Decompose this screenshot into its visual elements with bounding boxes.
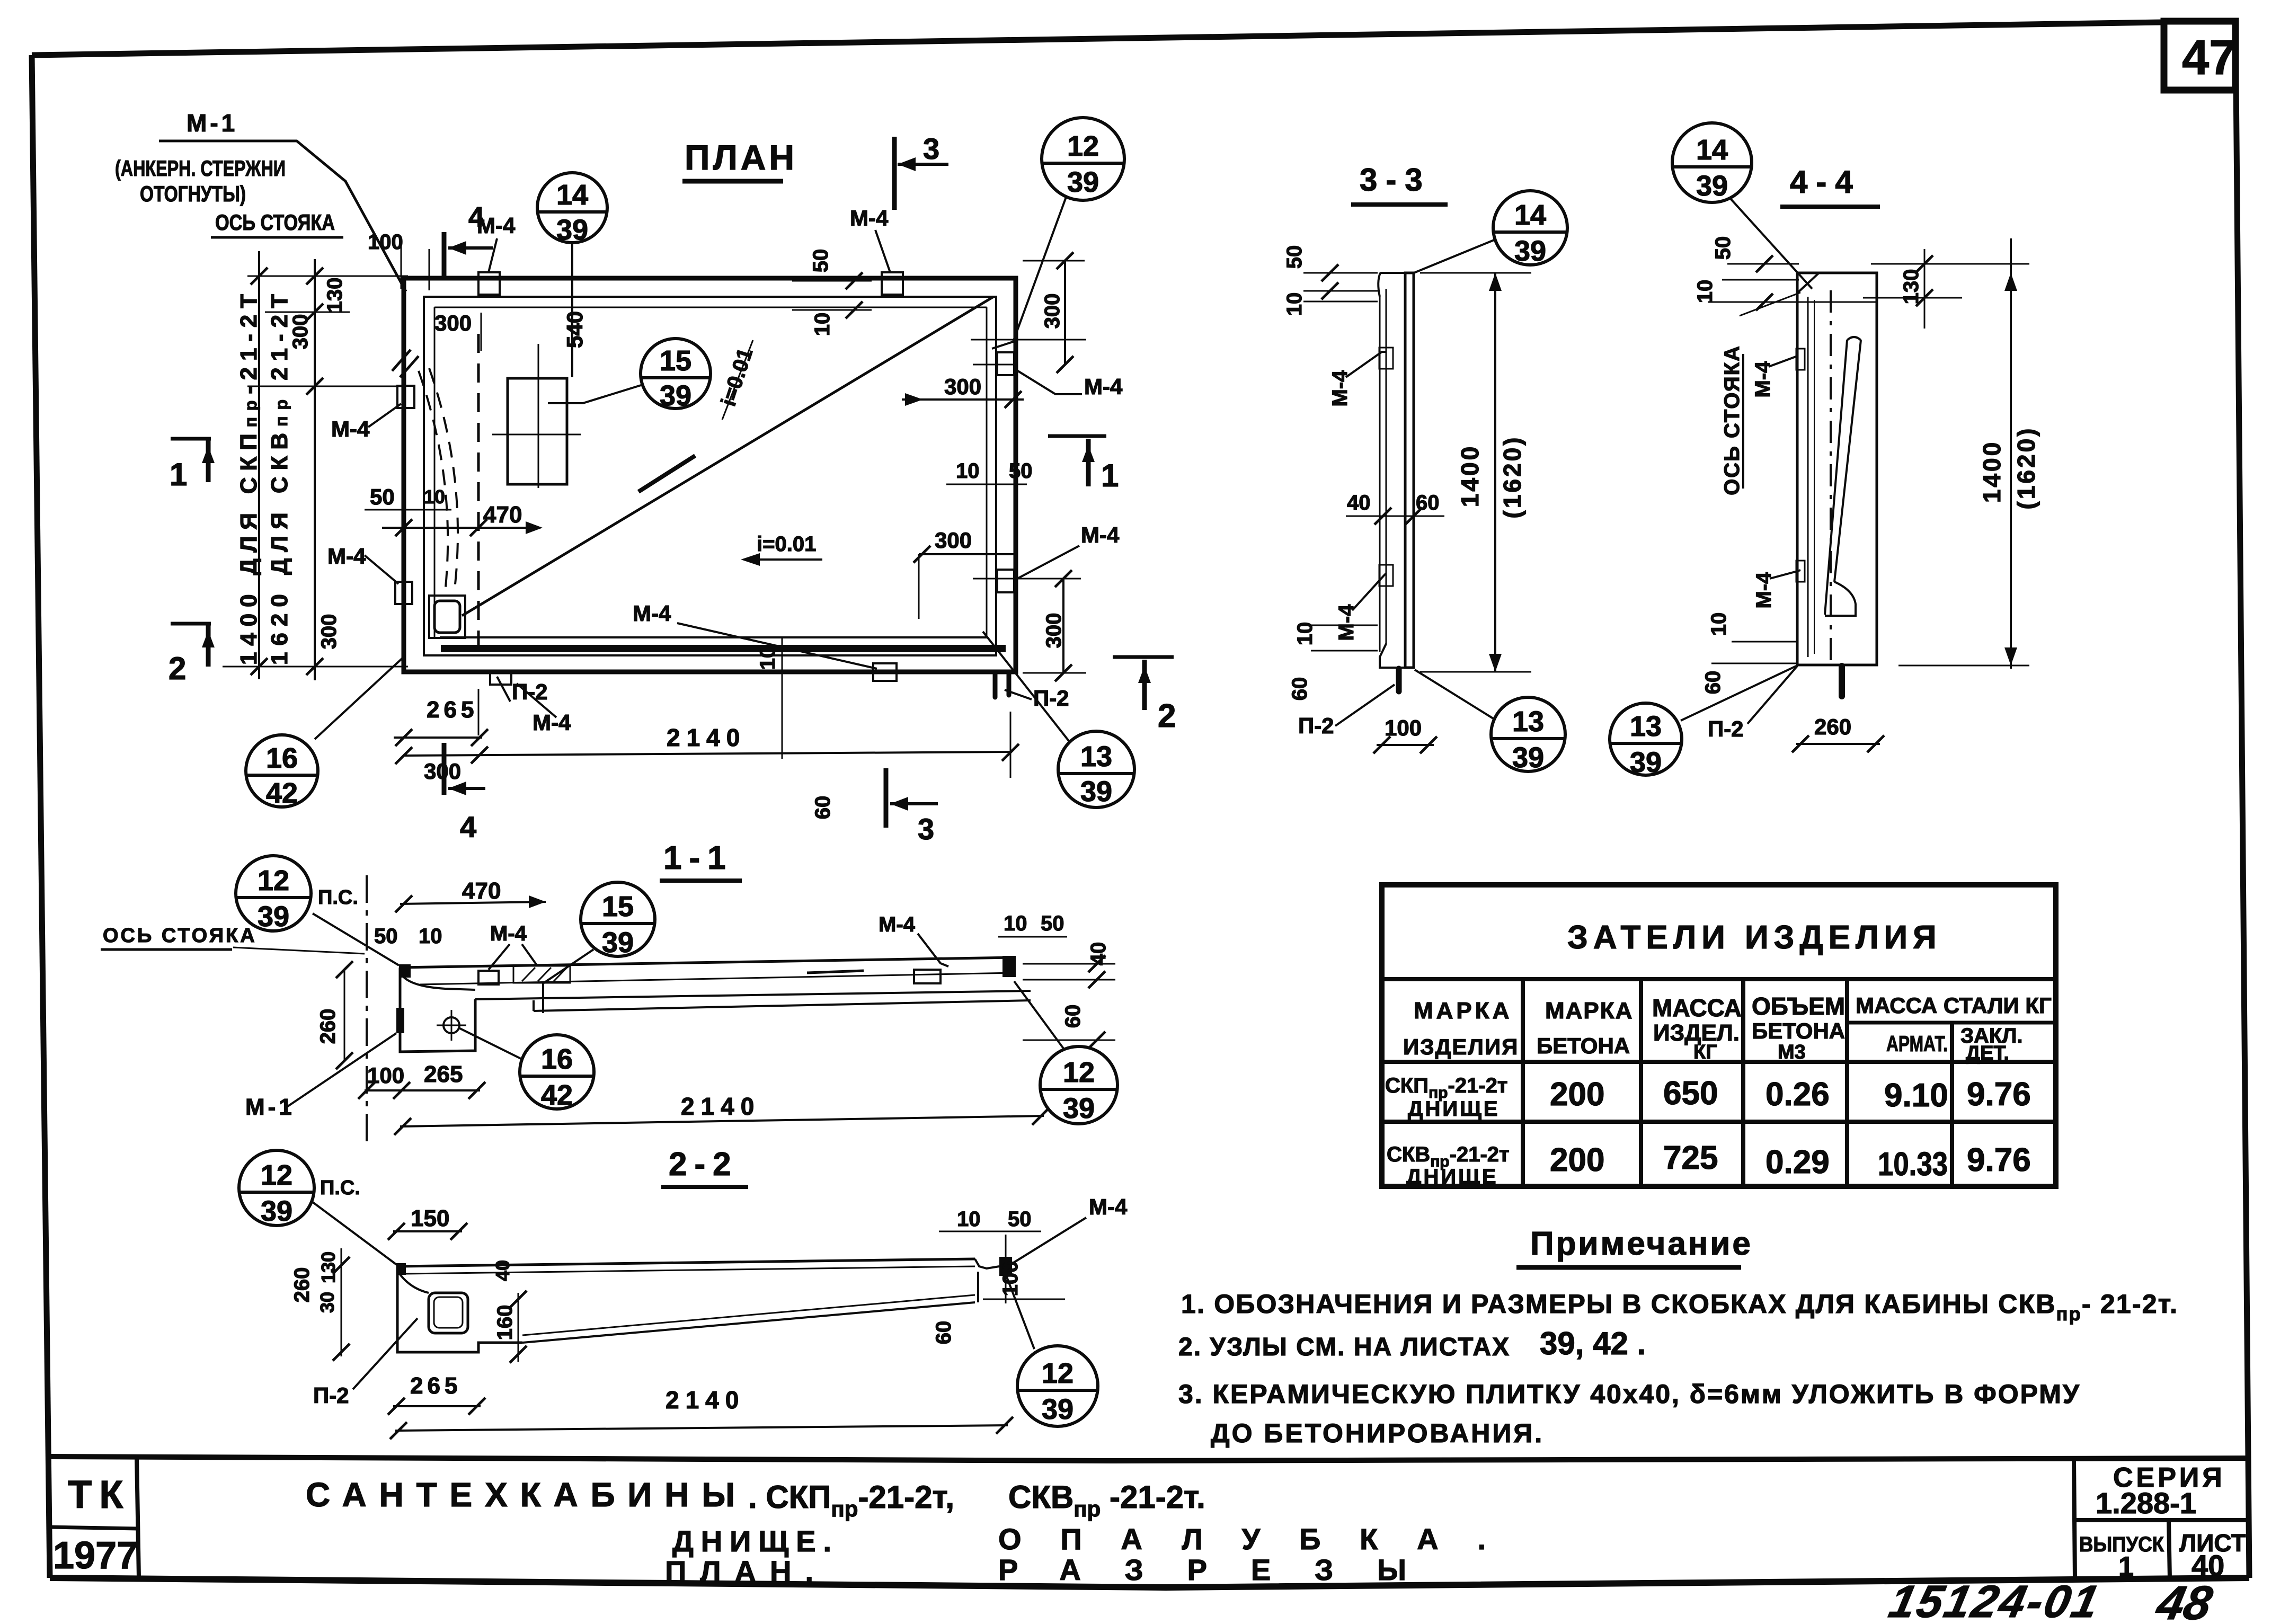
svg-text:13: 13 — [1080, 741, 1112, 773]
svg-text:2. УЗЛЫ СМ. НА ЛИСТАХ: 2. УЗЛЫ СМ. НА ЛИСТАХ — [1178, 1333, 1510, 1361]
svg-text:260: 260 — [1814, 714, 1851, 739]
svg-text:М-4: М-4 — [477, 213, 516, 238]
svg-text:М-4: М-4 — [1335, 604, 1358, 641]
svg-text:ОБЪЕМ: ОБЪЕМ — [1752, 992, 1845, 1020]
svg-text:50: 50 — [1008, 1208, 1032, 1231]
svg-text:1: 1 — [2118, 1551, 2134, 1582]
svg-text:ОТОГНУТЫ): ОТОГНУТЫ) — [140, 181, 246, 206]
svg-text:. СКПпр-21-2т,: . СКПпр-21-2т, — [748, 1479, 954, 1521]
svg-text:М-4: М-4 — [1081, 522, 1120, 547]
svg-text:650: 650 — [1663, 1075, 1718, 1112]
svg-text:10: 10 — [1283, 292, 1306, 316]
svg-text:ИЗДЕЛИЯ: ИЗДЕЛИЯ — [1403, 1034, 1519, 1059]
svg-text:300: 300 — [1042, 613, 1066, 649]
svg-text:60: 60 — [1701, 671, 1725, 695]
svg-text:100: 100 — [999, 1261, 1022, 1297]
svg-text:12: 12 — [1042, 1357, 1073, 1389]
svg-text:4-4: 4-4 — [1790, 164, 1861, 200]
svg-text:3: 3 — [918, 812, 934, 846]
svg-text:3. КЕРАМИЧЕСКУЮ ПЛИТКУ 40х4: 3. КЕРАМИЧЕСКУЮ ПЛИТКУ 40х40, δ=6мм УЛОЖ… — [1178, 1379, 2080, 1409]
svg-text:12: 12 — [1067, 130, 1099, 162]
svg-text:39: 39 — [1630, 747, 1662, 778]
svg-text:60: 60 — [1288, 677, 1311, 701]
svg-text:300: 300 — [434, 310, 472, 335]
svg-text:1: 1 — [1101, 458, 1119, 493]
svg-text:39: 39 — [1696, 170, 1728, 202]
svg-text:М-4: М-4 — [879, 913, 916, 936]
svg-text:М-4: М-4 — [490, 922, 527, 945]
svg-text:39: 39 — [602, 927, 634, 959]
svg-text:(1620): (1620) — [1498, 436, 1526, 519]
svg-text:40: 40 — [492, 1260, 513, 1281]
svg-text:2140: 2140 — [681, 1093, 760, 1120]
svg-text:П.С.: П.С. — [320, 1177, 360, 1199]
svg-text:300: 300 — [424, 759, 461, 784]
svg-text:160: 160 — [493, 1305, 517, 1341]
svg-text:130: 130 — [323, 278, 347, 313]
svg-text:540: 540 — [562, 311, 587, 348]
svg-text:1-1: 1-1 — [663, 840, 733, 876]
svg-text:2: 2 — [1158, 698, 1176, 734]
svg-text:200: 200 — [1550, 1076, 1604, 1113]
svg-text:39: 39 — [1512, 742, 1544, 774]
svg-text:П-2: П-2 — [1033, 686, 1069, 711]
svg-text:15124-01: 15124-01 — [1885, 1576, 2105, 1624]
svg-text:39: 39 — [1042, 1394, 1073, 1425]
svg-text:СКВпр -21-2т.: СКВпр -21-2т. — [1008, 1479, 1205, 1521]
svg-text:12: 12 — [261, 1159, 292, 1191]
svg-text:1977: 1977 — [53, 1534, 138, 1577]
svg-text:10: 10 — [1707, 613, 1731, 636]
svg-text:М-1: М-1 — [187, 109, 238, 137]
svg-text:39: 39 — [1080, 776, 1112, 807]
svg-text:ДО БЕТОНИРОВАНИЯ.: ДО БЕТОНИРОВАНИЯ. — [1211, 1418, 1544, 1448]
svg-text:МАССА СТАЛИ КГ: МАССА СТАЛИ КГ — [1856, 993, 2052, 1018]
svg-text:П-2: П-2 — [1708, 716, 1744, 741]
svg-text:2: 2 — [168, 651, 186, 686]
svg-text:(АНКЕРН. СТЕРЖНИ: (АНКЕРН. СТЕРЖНИ — [115, 156, 286, 181]
svg-text:39: 39 — [660, 380, 691, 412]
svg-text:260: 260 — [290, 1267, 314, 1303]
svg-text:60: 60 — [1061, 1005, 1085, 1028]
svg-text:60: 60 — [811, 796, 835, 820]
svg-text:30: 30 — [316, 1292, 338, 1313]
svg-text:ДНИЩЕ.: ДНИЩЕ. — [672, 1524, 831, 1558]
svg-text:(1620): (1620) — [2012, 427, 2040, 510]
svg-text:3-3: 3-3 — [1360, 162, 1431, 198]
svg-text:М-4: М-4 — [327, 544, 366, 569]
svg-text:М-4: М-4 — [1084, 374, 1123, 399]
svg-text:10: 10 — [811, 313, 834, 336]
svg-text:КГ: КГ — [1693, 1041, 1717, 1063]
svg-text:0.26: 0.26 — [1765, 1076, 1830, 1113]
svg-text:9.10: 9.10 — [1884, 1077, 1948, 1114]
svg-text:10.33: 10.33 — [1878, 1146, 1948, 1183]
svg-text:1400 ДЛЯ СКПпр-21-2Т: 1400 ДЛЯ СКПпр-21-2Т — [236, 294, 262, 665]
svg-text:130: 130 — [1900, 269, 1923, 305]
svg-text:10: 10 — [419, 925, 442, 948]
svg-text:БЕТОНА: БЕТОНА — [1752, 1018, 1845, 1043]
svg-text:39: 39 — [556, 214, 588, 246]
svg-text:725: 725 — [1663, 1140, 1718, 1176]
svg-text:ПЛАН: ПЛАН — [685, 138, 797, 177]
svg-text:265: 265 — [410, 1373, 462, 1399]
svg-text:П-2: П-2 — [313, 1383, 349, 1408]
svg-text:40: 40 — [1347, 491, 1371, 514]
svg-text:0.29: 0.29 — [1765, 1144, 1830, 1181]
svg-text:47: 47 — [2182, 31, 2236, 85]
svg-text:Примечание: Примечание — [1530, 1226, 1753, 1262]
svg-text:42: 42 — [266, 777, 298, 809]
svg-text:ОСЬ СТОЯКА: ОСЬ СТОЯКА — [215, 210, 335, 235]
svg-text:39: 39 — [1067, 166, 1099, 198]
svg-text:14: 14 — [1514, 199, 1546, 231]
svg-text:60: 60 — [932, 1321, 955, 1345]
svg-text:50: 50 — [1009, 459, 1033, 483]
svg-text:АРМАТ.: АРМАТ. — [1886, 1031, 1948, 1056]
svg-text:i=0.01: i=0.01 — [757, 533, 816, 556]
svg-text:300: 300 — [944, 374, 981, 399]
svg-text:10: 10 — [424, 486, 445, 508]
svg-text:10: 10 — [957, 1208, 981, 1231]
svg-text:1620 ДЛЯ СКВпр 21-2Т: 1620 ДЛЯ СКВпр 21-2Т — [267, 294, 292, 665]
svg-text:1. ОБОЗНАЧЕНИЯ И РАЗМЕРЫ В: 1. ОБОЗНАЧЕНИЯ И РАЗМЕРЫ В СКОБКАХ ДЛЯ К… — [1181, 1289, 2177, 1325]
svg-text:16: 16 — [541, 1043, 573, 1075]
svg-text:ДНИЩЕ: ДНИЩЕ — [1408, 1097, 1500, 1121]
svg-text:2140: 2140 — [667, 724, 746, 751]
svg-text:1400: 1400 — [1978, 440, 2006, 503]
svg-text:50: 50 — [1283, 245, 1306, 269]
svg-text:МАССА: МАССА — [1652, 994, 1742, 1022]
svg-text:12: 12 — [258, 865, 289, 897]
svg-text:МАРКА: МАРКА — [1414, 998, 1512, 1024]
svg-text:П-2: П-2 — [1298, 713, 1334, 738]
svg-text:ОСЬ СТОЯКА: ОСЬ СТОЯКА — [103, 925, 257, 947]
svg-text:РАЗРЕЗЫ: РАЗРЕЗЫ — [998, 1553, 1406, 1586]
svg-text:ДНИЩЕ: ДНИЩЕ — [1406, 1165, 1498, 1188]
svg-text:10: 10 — [956, 459, 980, 483]
svg-text:39: 39 — [258, 901, 289, 933]
svg-text:М3: М3 — [1778, 1041, 1806, 1063]
svg-text:БЕТОНА: БЕТОНА — [1537, 1033, 1630, 1058]
svg-text:1: 1 — [170, 457, 187, 492]
svg-text:МАРКА: МАРКА — [1545, 998, 1633, 1024]
svg-text:16: 16 — [266, 742, 298, 774]
svg-text:300: 300 — [1041, 294, 1064, 329]
svg-text:12: 12 — [1063, 1057, 1095, 1088]
svg-text:50: 50 — [370, 484, 395, 509]
svg-text:14: 14 — [556, 179, 588, 211]
svg-text:15: 15 — [602, 891, 634, 922]
svg-text:470: 470 — [462, 878, 501, 904]
svg-text:130: 130 — [317, 1252, 339, 1283]
svg-text:42: 42 — [541, 1079, 573, 1111]
svg-text:265: 265 — [427, 697, 478, 723]
svg-text:П.С.: П.С. — [318, 886, 358, 909]
svg-text:САНТЕХКАБИНЫ: САНТЕХКАБИНЫ — [306, 1476, 735, 1514]
svg-text:2-2: 2-2 — [669, 1146, 739, 1183]
svg-text:3: 3 — [923, 132, 939, 165]
svg-text:39, 42 .: 39, 42 . — [1540, 1326, 1646, 1361]
svg-text:М-4: М-4 — [331, 416, 370, 441]
svg-text:10: 10 — [1693, 280, 1717, 304]
svg-text:50: 50 — [1711, 236, 1735, 260]
svg-text:200: 200 — [1550, 1142, 1604, 1178]
svg-text:ОПАЛУБКА.: ОПАЛУБКА. — [998, 1522, 1486, 1556]
svg-text:100: 100 — [368, 230, 403, 254]
svg-text:50: 50 — [809, 249, 832, 273]
svg-text:М-4: М-4 — [850, 206, 889, 230]
svg-text:13: 13 — [1512, 706, 1544, 738]
svg-text:50: 50 — [1041, 912, 1064, 935]
svg-text:ДЕТ.: ДЕТ. — [1966, 1042, 2009, 1064]
svg-text:265: 265 — [424, 1061, 463, 1087]
svg-text:ЗАТЕЛИ ИЗДЕЛИЯ: ЗАТЕЛИ ИЗДЕЛИЯ — [1567, 919, 1942, 956]
svg-text:2140: 2140 — [666, 1386, 745, 1414]
svg-text:50: 50 — [374, 925, 398, 948]
svg-text:ТК: ТК — [68, 1472, 130, 1516]
svg-text:10: 10 — [1004, 912, 1027, 935]
svg-text:ОСЬ СТОЯКА: ОСЬ СТОЯКА — [1720, 345, 1744, 495]
svg-text:i=0.01: i=0.01 — [717, 345, 758, 409]
svg-text:13: 13 — [1630, 711, 1662, 742]
svg-text:М-4: М-4 — [633, 601, 671, 626]
svg-text:1400: 1400 — [1456, 445, 1484, 507]
svg-text:9.76: 9.76 — [1967, 1076, 2031, 1113]
svg-text:470: 470 — [483, 502, 522, 528]
svg-text:М-4: М-4 — [1089, 1194, 1128, 1219]
svg-text:15: 15 — [660, 345, 691, 377]
svg-text:10: 10 — [756, 646, 779, 670]
svg-text:39: 39 — [1514, 235, 1546, 267]
svg-text:300: 300 — [317, 614, 341, 650]
svg-text:260: 260 — [316, 1009, 340, 1044]
svg-text:4: 4 — [460, 810, 476, 844]
svg-text:39: 39 — [1063, 1093, 1095, 1124]
svg-text:9.76: 9.76 — [1967, 1142, 2031, 1178]
svg-text:1.288-1: 1.288-1 — [2096, 1486, 2196, 1520]
svg-text:39: 39 — [261, 1195, 292, 1227]
svg-text:150: 150 — [411, 1205, 449, 1231]
svg-text:300: 300 — [935, 528, 972, 553]
svg-text:48: 48 — [2151, 1577, 2217, 1624]
svg-text:14: 14 — [1696, 134, 1728, 166]
